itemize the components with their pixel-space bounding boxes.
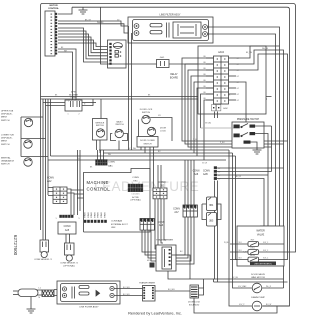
svg-text:MACHINE: MACHINE	[87, 180, 109, 185]
svg-text:VLV_P: VLV_P	[239, 304, 245, 306]
connector AA6	[140, 219, 154, 231]
svg-text:GY_W: GY_W	[202, 163, 207, 165]
connector AAC pins row2	[96, 163, 108, 166]
relay board	[198, 46, 266, 114]
svg-text:UPPER TUB: UPPER TUB	[1, 111, 14, 113]
drain pump	[252, 301, 262, 311]
wire 3B4 left	[202, 204, 206, 220]
water valve coil COLD	[230, 251, 284, 253]
wire left bundle 2	[45, 99, 47, 240]
relay 3B4	[207, 197, 217, 211]
wire solenoid top 2	[214, 279, 288, 282]
wire pressure switch outs	[251, 126, 272, 226]
svg-text:BU_WH: BU_WH	[123, 294, 130, 296]
upper tub displacement switch S1	[24, 118, 32, 126]
svg-text:VAULT: VAULT	[116, 120, 123, 123]
machine control U1	[84, 169, 151, 233]
connector KK1 row1	[128, 184, 143, 188]
svg-text:L: L	[68, 101, 69, 103]
wire filter tap down 1	[128, 26, 130, 150]
svg-text:C_BU: C_BU	[243, 252, 248, 254]
svg-text:WAX MOTOR: WAX MOTOR	[251, 276, 265, 279]
wire vault switch loop	[111, 134, 128, 141]
wire pressure switch feed	[201, 127, 234, 129]
wire left bundle 4	[50, 99, 52, 156]
wire GG2 stubs	[215, 112, 218, 119]
svg-text:CONTROL: CONTROL	[48, 8, 59, 10]
pressure switch contacts	[234, 125, 256, 144]
svg-text:(OPTIONAL): (OPTIONAL)	[63, 265, 75, 268]
svg-text:GY_BU: GY_BU	[205, 123, 212, 125]
svg-text:WH_BK: WH_BK	[262, 48, 269, 50]
svg-text:BU_WH: BU_WH	[123, 287, 130, 289]
svg-text:5: 5	[79, 218, 80, 220]
svg-text:SERVICE: SERVICE	[95, 122, 104, 124]
svg-text:CONN: CONN	[132, 177, 139, 179]
lower tub displacement switch S2	[24, 140, 32, 148]
line filter inductor	[173, 22, 201, 38]
svg-text:GG2: GG2	[223, 108, 228, 110]
svg-text:SPARE: SPARE	[93, 211, 96, 218]
connector AAC pins row1	[96, 160, 108, 163]
svg-text:SPARE: SPARE	[87, 211, 90, 218]
svg-text:3B5: 3B5	[209, 221, 214, 223]
drive motor M1	[108, 40, 127, 68]
wire solenoid top 1	[204, 279, 284, 288]
wire door area down 3	[149, 147, 151, 188]
svg-text:LINE FILTER ASSY: LINE FILTER ASSY	[160, 14, 181, 17]
wire door lock switch out	[150, 118, 172, 142]
wire blower right 1	[82, 102, 96, 104]
relay 3B5	[207, 213, 217, 227]
svg-text:AA7: AA7	[174, 211, 179, 214]
wire link right	[271, 126, 273, 172]
door closed switch	[137, 137, 158, 148]
MOV component	[150, 263, 155, 268]
svg-text:CONN: CONN	[173, 209, 180, 211]
connector AAB pins	[214, 167, 217, 180]
AA04 right stubs	[229, 57, 237, 59]
wire blower left 2	[46, 105, 66, 107]
wire lower tub switch loop	[21, 139, 46, 157]
wire 3B2 top feeds	[158, 165, 161, 188]
svg-text:UNBALANCE: UNBALANCE	[1, 160, 15, 163]
connector AA3 pins	[84, 220, 107, 223]
connector 3B2	[153, 188, 167, 199]
svg-text:BU_W: BU_W	[236, 176, 241, 178]
svg-text:CONN: CONN	[108, 162, 115, 164]
svg-text:BU_W: BU_W	[266, 304, 271, 306]
wire service switch feed	[100, 99, 102, 119]
svg-text:LOWER TUB: LOWER TUB	[1, 135, 14, 137]
svg-text:BU_WH: BU_WH	[168, 289, 175, 291]
svg-text:DOOR LOCK: DOOR LOCK	[140, 109, 153, 111]
svg-text:SWITCH: SWITCH	[1, 144, 10, 146]
wire mid rail 3	[51, 155, 236, 157]
wire line filter out 2	[208, 34, 276, 226]
svg-text:LINK: LINK	[111, 227, 116, 229]
svg-text:AA04: AA04	[218, 51, 225, 54]
wire J2 to blower conn	[58, 49, 76, 100]
ground G1	[79, 10, 88, 14]
connector GG1	[157, 60, 170, 68]
svg-text:VLV_C: VLV_C	[263, 250, 269, 252]
wire to GG1	[101, 7, 157, 64]
wire blower right 2	[82, 99, 93, 106]
wire AAB to solenoid	[215, 181, 218, 283]
wire AA7 to transformer	[176, 217, 194, 264]
svg-text:SPARE: SPARE	[84, 211, 87, 218]
line filter assembly (bottom)	[57, 281, 120, 304]
wire bundle valve left 2	[233, 153, 253, 288]
wire line filter out 1	[208, 27, 285, 244]
wire J2 pin1 to N rail	[58, 7, 72, 14]
wire door closed down 2	[144, 147, 146, 153]
svg-text:1: 1	[68, 114, 69, 116]
wire bundle valve left 3	[236, 156, 249, 260]
svg-text:MENT: MENT	[1, 141, 8, 143]
svg-text:1 2 3 4 5 6: 1 2 3 4 5 6	[132, 194, 140, 196]
wire T1 out right	[172, 255, 190, 279]
svg-text:MOTOR: MOTOR	[49, 5, 58, 7]
svg-text:RELAY: RELAY	[170, 73, 178, 76]
svg-text:EXTERNAL BOOT: EXTERNAL BOOT	[111, 223, 128, 226]
svg-text:CONN: CONN	[64, 226, 71, 228]
svg-text:BK_GY: BK_GY	[85, 19, 92, 21]
svg-text:SPARE: SPARE	[90, 211, 93, 218]
svg-text:CONN SENSOR #1: CONN SENSOR #1	[34, 259, 53, 261]
svg-text:AA6: AA6	[159, 224, 164, 227]
cord strain relief	[42, 290, 54, 297]
svg-text:DOOR VALVE: DOOR VALVE	[251, 273, 265, 276]
wire drain pump right	[262, 305, 290, 307]
connector AA04	[214, 56, 229, 104]
svg-text:SWITCH: SWITCH	[144, 143, 152, 145]
svg-text:SPARE: SPARE	[103, 211, 106, 218]
wire filter to T2 a	[114, 288, 142, 290]
connector J2 pin numbers	[51, 14, 53, 55]
conn sensor 1	[40, 240, 49, 252]
pressure switch	[232, 122, 264, 148]
wire service sw down 2	[99, 140, 101, 153]
svg-text:(OPTIONAL): (OPTIONAL)	[130, 199, 141, 202]
svg-text:BOARD: BOARD	[170, 76, 179, 79]
connector GG2	[212, 105, 221, 111]
svg-text:SWITCH: SWITCH	[1, 164, 10, 166]
connector AA6 dark row	[140, 219, 153, 222]
wire J2 to line filter N	[58, 24, 133, 33]
wire L1 rail left	[41, 4, 43, 231]
wire filter to T2 b	[114, 295, 142, 297]
water valve coil HOT	[230, 243, 284, 245]
wire bundle AA04 right	[236, 46, 280, 58]
svg-text:GG1: GG1	[160, 57, 165, 59]
wire door closed down 1	[140, 147, 142, 150]
wire AA2 left stubs	[48, 188, 53, 196]
wire plug to relief	[37, 290, 42, 295]
svg-text:62727600: 62727600	[13, 235, 18, 256]
wire GG1 to relay board	[169, 63, 198, 65]
water valve bottom label	[250, 262, 276, 266]
svg-text:BLOWER: BLOWER	[69, 94, 78, 96]
svg-text:3B4: 3B4	[209, 205, 214, 207]
svg-text:BK_WH: BK_WH	[246, 52, 253, 54]
svg-text:MENT: MENT	[1, 117, 8, 119]
ground G2	[253, 150, 262, 154]
connector J2 pins	[55, 13, 57, 54]
wire AA7 top feeds	[185, 160, 194, 205]
svg-text:Rendered by LeadVenture, Inc.: Rendered by LeadVenture, Inc.	[128, 311, 182, 316]
wire vault sw down	[118, 141, 120, 151]
power cord plug	[13, 289, 38, 297]
wire solenoid loop	[199, 288, 204, 295]
svg-text:GY_BU: GY_BU	[232, 277, 239, 279]
svg-text:SPARE: SPARE	[97, 211, 100, 218]
svg-text:CONN: CONN	[159, 182, 166, 184]
svg-text:HOT: HOT	[251, 239, 255, 241]
wire blower left 1	[43, 102, 65, 104]
service switch enclosure	[93, 119, 108, 141]
svg-text:2: 2	[79, 114, 80, 116]
wire left bundle 1	[42, 99, 44, 240]
wire AA6 to transformer	[142, 230, 162, 261]
wire pair left of machine control	[78, 150, 81, 215]
wire unbalance switch loop	[21, 156, 48, 158]
wire service sw down 1	[96, 140, 98, 150]
wire door area down 4	[153, 147, 155, 188]
svg-text:COLD: COLD	[250, 247, 255, 249]
connector AA2	[53, 187, 67, 203]
svg-text:TRANSFORMER: TRANSFORMER	[139, 282, 156, 285]
wire AA5 to sensor2	[66, 234, 70, 243]
wire AA2 to AA5	[67, 189, 74, 215]
svg-text:AAC: AAC	[108, 164, 113, 167]
svg-text:DRAIN PUMP: DRAIN PUMP	[251, 296, 265, 299]
svg-text:VLV_C: VLV_C	[263, 257, 269, 259]
transformer T2	[143, 286, 156, 302]
svg-text:CONN AA3: CONN AA3	[111, 220, 123, 223]
wire bundle AA04 left	[182, 58, 288, 141]
wire J2 to line filter L	[58, 21, 133, 26]
door lock switch S6	[142, 115, 150, 123]
wire T2 to solenoid	[155, 290, 190, 292]
svg-text:VLV_WAX: VLV_WAX	[238, 285, 247, 288]
wire door lock left	[139, 120, 141, 144]
svg-text:VALVE: VALVE	[257, 233, 265, 236]
wire relief to filter	[54, 290, 62, 296]
svg-text:DOOR CLOSED: DOOR CLOSED	[140, 140, 155, 142]
wire mid rail 1	[99, 149, 229, 151]
water valve coil BLCH	[230, 259, 284, 261]
svg-text:WATER: WATER	[256, 230, 265, 233]
svg-text:AAB: AAB	[203, 173, 208, 176]
drive motor connector pins	[110, 43, 112, 65]
inertial unbalance switch S3	[24, 158, 32, 166]
svg-text:SWITCH: SWITCH	[115, 124, 124, 126]
wire L1 rail top/right	[42, 4, 296, 253]
wire N rail inner top/right	[72, 7, 290, 306]
svg-text:SPARE: SPARE	[100, 211, 103, 218]
svg-text:W_BU: W_BU	[224, 242, 230, 244]
wire wax motor right	[262, 287, 284, 289]
door lock switch S7	[147, 127, 155, 135]
connector AA5 pins	[60, 215, 74, 218]
drive motor body	[113, 43, 122, 58]
wire J2 to blower conn 2	[58, 52, 73, 100]
wire filter tap down 2	[131, 33, 133, 150]
svg-text:AA8: AA8	[194, 173, 199, 176]
wire 3B2 to transformer	[155, 199, 166, 249]
svg-text:CONN: CONN	[158, 222, 165, 224]
svg-text:LOCK: LOCK	[160, 131, 166, 133]
blower connector	[65, 100, 82, 111]
svg-text:BLCH: BLCH	[250, 255, 255, 257]
wire left bundle 3	[47, 99, 49, 195]
vault switch S5	[115, 129, 123, 137]
wire bundle J2 to drive motor	[58, 28, 110, 62]
svg-text:DOOR: DOOR	[160, 128, 167, 130]
svg-text:CONTROL: CONTROL	[87, 187, 111, 192]
svg-text:WL_R: WL_R	[266, 286, 272, 288]
svg-text:AA5: AA5	[65, 229, 70, 232]
svg-text:ACTIVE: ACTIVE	[132, 196, 139, 199]
connector J2 motor control	[45, 11, 55, 56]
svg-text:TRANSFORMER: TRANSFORMER	[156, 238, 173, 241]
svg-text:1: 1	[56, 218, 57, 220]
line filter left terminals	[134, 24, 139, 36]
conn sensor 2	[65, 243, 75, 255]
wire 3B4-3B5 link	[217, 204, 222, 220]
wire mid rail 2	[103, 152, 233, 154]
wire rail B	[41, 98, 268, 100]
svg-text:SWITCH: SWITCH	[1, 120, 10, 122]
svg-text:4 PIN: 4 PIN	[71, 92, 77, 94]
connector AA7	[183, 205, 197, 217]
door lock solenoid	[190, 285, 199, 298]
wire upper tub switch loop	[21, 117, 43, 139]
svg-text:P_BU: P_BU	[220, 142, 225, 144]
svg-text:(HE DETERGENT): (HE DETERGENT)	[255, 263, 272, 265]
transformer T1	[156, 245, 176, 271]
svg-text:SWITCH: SWITCH	[96, 125, 104, 127]
wire mid rail 4	[48, 159, 226, 161]
wire AA2 to machine control	[71, 190, 84, 198]
svg-text:DISPLACE-: DISPLACE-	[1, 113, 13, 116]
svg-text:PRESSURE SWITCH: PRESSURE SWITCH	[237, 119, 260, 121]
connector KK1 row2	[128, 188, 143, 192]
svg-text:VLV_C: VLV_C	[263, 242, 269, 244]
water valve assembly	[237, 226, 284, 266]
wire rail A	[41, 96, 272, 98]
wire AAB outs	[217, 168, 284, 226]
wire T1 out bottom	[168, 271, 204, 279]
wire solenoid bottom	[194, 298, 277, 313]
line filter right terminals	[203, 25, 208, 37]
wire AAC feeds	[98, 150, 104, 160]
svg-text:INERTIAL: INERTIAL	[1, 157, 11, 160]
svg-text:CONN: CONN	[47, 178, 54, 180]
ground G1 stem	[82, 7, 84, 10]
service switch S4	[96, 129, 104, 137]
svg-text:AA2: AA2	[47, 180, 52, 183]
svg-text:SWITCH: SWITCH	[142, 112, 151, 114]
line filter capacitors	[150, 23, 169, 38]
svg-text:CONN SENSOR #2: CONN SENSOR #2	[60, 262, 79, 264]
ground G3	[30, 297, 32, 310]
wire bundle valve left 1	[229, 150, 252, 306]
door valve wax motor	[252, 283, 262, 293]
svg-text:DISPLACE-: DISPLACE-	[1, 137, 13, 140]
svg-text:CONN: CONN	[203, 171, 210, 173]
svg-text:LINE FILTER ASSY: LINE FILTER ASSY	[79, 306, 99, 309]
svg-text:CONN: CONN	[71, 97, 77, 99]
connector AA7 dark row	[183, 205, 196, 208]
AA04 left stubs	[206, 57, 214, 59]
